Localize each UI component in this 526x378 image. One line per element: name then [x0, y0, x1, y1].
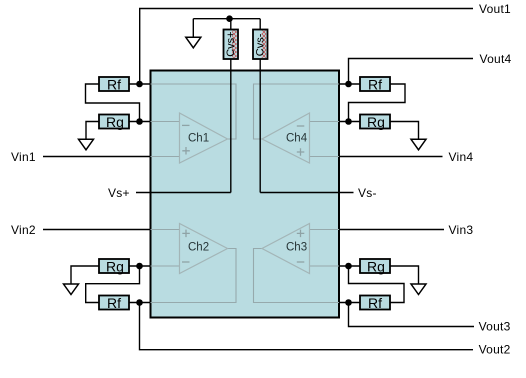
wire Vout1 net (vertical + top horizontal) — [140, 9, 473, 85]
node left Rg top junction — [136, 118, 143, 125]
svg-text:Rf: Rf — [368, 77, 382, 93]
wire ground stem top center — [192, 19, 194, 38]
wire Ch2 non-inverting input (internal) — [151, 229, 180, 231]
node left Rf bottom junction — [136, 299, 143, 306]
wire Ch3 non-inverting input (internal) — [310, 229, 340, 231]
wire Ch1 inverting input (internal) — [151, 121, 180, 123]
wire Vs- horizontal — [260, 192, 353, 194]
svg-text:Vin2: Vin2 — [11, 223, 36, 237]
resistor Rg (top left) — [99, 114, 129, 130]
wire left Rg to IC pin — [129, 121, 151, 123]
svg-text:Vin4: Vin4 — [449, 150, 474, 164]
svg-text:Ch2: Ch2 — [188, 242, 209, 254]
wire Vs+ horizontal — [136, 192, 231, 194]
wire bottom-right Rg to IC pin — [339, 265, 360, 267]
svg-text:Ch3: Ch3 — [286, 242, 307, 254]
ground (bottom left) — [64, 284, 79, 295]
resistor Rf (bottom left) — [99, 295, 129, 311]
wire left Rg to ground — [86, 122, 99, 140]
wire Ch4 output (internal) — [254, 84, 340, 139]
wire right Rg to IC pin — [339, 121, 360, 123]
wire bottom-left Rf feedback loop — [86, 266, 140, 303]
svg-text:Vs-: Vs- — [358, 186, 377, 200]
svg-text:Vin1: Vin1 — [11, 150, 36, 164]
wire Vin1 — [43, 156, 151, 158]
resistor Rg (top right) — [360, 114, 390, 130]
wire Vout2 net — [140, 303, 474, 350]
wire Vout4 net — [349, 59, 474, 85]
wire Ch2 output (internal) — [151, 249, 237, 303]
op-amp Ch2 — [180, 224, 228, 274]
wire top supply junction horizontal — [193, 18, 260, 20]
node right Rf top junction — [345, 81, 352, 88]
svg-text:Ch4: Ch4 — [286, 132, 308, 144]
node left Rg bottom junction — [136, 263, 143, 270]
wire Vin4 — [339, 156, 443, 158]
svg-text:Rg: Rg — [367, 259, 385, 275]
svg-text:Cvs+: Cvs+ — [225, 31, 237, 56]
svg-text:Ch1: Ch1 — [188, 132, 209, 144]
IC body U1 — [151, 71, 340, 318]
svg-text:Vout3: Vout3 — [479, 319, 511, 333]
resistor Rg (bottom left) — [99, 259, 129, 275]
resistor Rf (top right) — [360, 77, 390, 93]
wire left Rf feedback loop — [86, 84, 140, 122]
svg-text:Vout1: Vout1 — [479, 2, 511, 16]
svg-text:Cvs-: Cvs- — [255, 33, 267, 56]
capacitor Cvs+ — [224, 30, 239, 60]
svg-text:Rg: Rg — [367, 114, 385, 130]
wire right Rf feedback loop — [349, 84, 406, 122]
node left Rf top junction — [136, 81, 143, 88]
wire Ch1 output (internal) — [151, 84, 237, 139]
wire Ch3 inverting input (internal) — [310, 265, 340, 267]
capacitor Cvs- — [253, 30, 268, 60]
wire Vout3 net — [349, 303, 475, 327]
svg-text:Rg: Rg — [106, 114, 124, 130]
wire Cvs+ lead / Vs+ vertical — [230, 19, 232, 193]
wire bottom-left Rg to ground — [71, 266, 99, 284]
wire bottom-left Rf to IC pin — [129, 302, 151, 304]
resistor Rg (bottom right) — [360, 259, 390, 275]
resistor Rf (bottom right) — [360, 295, 390, 311]
wire Ch4 inverting input (internal) — [310, 121, 340, 123]
wire Ch4 non-inverting input (internal) — [310, 156, 340, 158]
svg-text:Vout2: Vout2 — [479, 343, 511, 357]
wire right Rg to ground — [390, 122, 419, 140]
wire bottom-right Rf to IC pin — [339, 302, 360, 304]
wire Vin2 — [43, 229, 151, 231]
wire left Rf to IC pin — [129, 83, 151, 85]
svg-text:Rf: Rf — [368, 295, 382, 311]
node right Rf bottom junction — [345, 299, 352, 306]
svg-text:Rf: Rf — [107, 77, 121, 93]
wire Ch2 inverting input (internal) — [151, 265, 180, 267]
ground (top left) — [79, 139, 94, 150]
op-amp Ch1 — [180, 113, 228, 163]
svg-text:Vout4: Vout4 — [480, 52, 512, 66]
wire right Rf to IC pin — [339, 83, 360, 85]
wire bottom-left Rg to IC pin — [129, 265, 151, 267]
svg-text:Vin3: Vin3 — [449, 223, 474, 237]
node right Rg top junction — [345, 118, 352, 125]
op-amp Ch4 — [262, 113, 310, 163]
ground (top center) — [186, 37, 201, 48]
svg-text:Rf: Rf — [107, 295, 121, 311]
wire Vin3 — [339, 229, 444, 231]
wire Cvs- lead / Vs- vertical — [259, 19, 261, 193]
wire bottom-right Rg to ground — [390, 266, 419, 284]
wire bottom-right Rf feedback loop — [349, 266, 405, 303]
node right Rg bottom junction — [345, 263, 352, 270]
resistor Rf (top left) — [99, 77, 129, 93]
op-amp Ch3 — [262, 224, 310, 274]
wire Ch3 output (internal) — [254, 249, 340, 303]
ground (top right) — [411, 139, 426, 150]
ground (bottom right) — [411, 284, 426, 295]
wire Ch1 non-inverting input (internal) — [151, 156, 180, 158]
node top supply junction — [226, 15, 233, 22]
svg-text:Rg: Rg — [106, 259, 124, 275]
svg-text:Vs+: Vs+ — [108, 186, 130, 200]
